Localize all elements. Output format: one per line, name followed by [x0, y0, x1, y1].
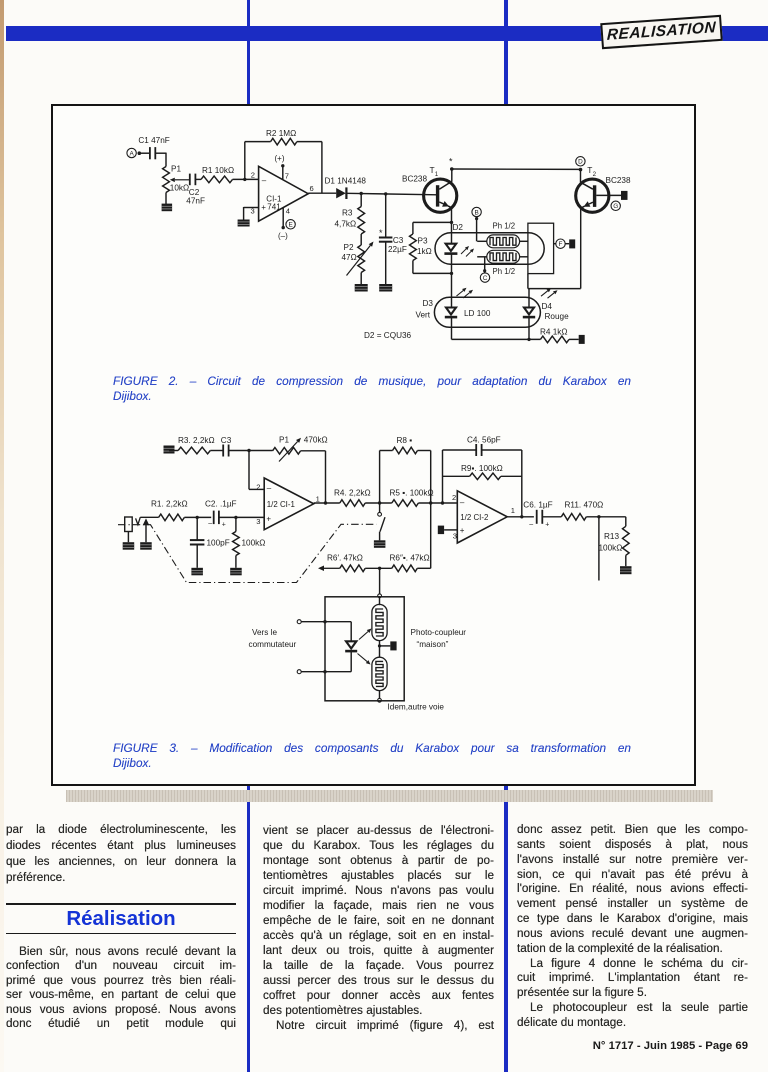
svg-text:D4: D4: [542, 302, 553, 311]
ground: [355, 284, 368, 292]
blue column rule right: [504, 0, 508, 1072]
svg-text:R11. 470Ω: R11. 470Ω: [565, 500, 604, 509]
wire: [233, 178, 259, 180]
svg-text:–: –: [262, 176, 267, 185]
wire D2 down: [451, 254, 453, 274]
svg-text:commutateur: commutateur: [249, 640, 297, 649]
ground pad: [164, 446, 175, 454]
wire into box: [379, 598, 381, 606]
schematic box shadow bottom: [66, 790, 713, 802]
diode D1 1N4148: [336, 188, 346, 198]
text column 2: [263, 823, 494, 1033]
photocoupler box: [325, 597, 404, 701]
wire right loop rectangle: [528, 223, 554, 273]
svg-text:4: 4: [286, 207, 290, 216]
svg-text:–: –: [267, 483, 272, 492]
wire: [210, 450, 223, 452]
LED D4 Rouge: [524, 308, 534, 315]
LED D2: [451, 233, 453, 244]
svg-text:Photo-coupleur: Photo-coupleur: [411, 628, 467, 637]
wire: [365, 502, 392, 504]
wire: [418, 502, 457, 504]
resistor R1 2,2k: [159, 514, 185, 521]
resistor R1: [201, 176, 233, 183]
wire D3 down / bottom rail: [451, 318, 453, 340]
op-amp 1/2 CI-1: [264, 478, 314, 530]
potentiometer P1: [163, 167, 170, 193]
svg-text:R3. 2,2kΩ: R3. 2,2kΩ: [178, 436, 215, 445]
svg-text:+: +: [261, 203, 266, 212]
wire: [301, 450, 326, 452]
resistor R13 100k: [625, 517, 627, 527]
wire output: [308, 192, 336, 194]
svg-text:1: 1: [316, 495, 320, 504]
ground: [162, 204, 173, 212]
svg-text:3: 3: [256, 517, 260, 526]
D3 light arrows: [457, 291, 464, 297]
capacitor C2 .1uF: [213, 511, 215, 524]
capacitor C4 56pF: [443, 449, 477, 451]
svg-text:P1: P1: [279, 436, 289, 445]
svg-text:*: *: [379, 228, 383, 238]
wire collector/emitter: [451, 169, 453, 182]
svg-text:R8 ▪: R8 ▪: [397, 436, 413, 445]
wire: [542, 516, 561, 518]
svg-text:3: 3: [453, 532, 457, 541]
svg-text:R2 1MΩ: R2 1MΩ: [266, 129, 296, 138]
resistor R11 470: [561, 514, 586, 521]
svg-text:22µF: 22µF: [388, 245, 407, 254]
svg-text:1/2 CI-2: 1/2 CI-2: [460, 513, 488, 522]
svg-text:D: D: [578, 159, 583, 166]
svg-text:–: –: [460, 498, 465, 507]
svg-text:D3: D3: [423, 299, 434, 308]
svg-text:C4. 56pF: C4. 56pF: [467, 435, 501, 444]
pin 4, node E, (-): [282, 208, 284, 227]
svg-text:P3: P3: [418, 237, 428, 246]
ground: [379, 284, 392, 292]
photoresistor Ph 1/2 (bottom): [487, 250, 520, 263]
transistor T1 BC238: [424, 179, 457, 212]
svg-text:R13: R13: [604, 532, 619, 541]
svg-text:741: 741: [267, 202, 281, 211]
footer: [517, 1040, 748, 1052]
svg-text:100kΩ: 100kΩ: [242, 539, 266, 548]
wire middle junction to pad: [379, 641, 381, 657]
svg-text:–: –: [529, 521, 533, 528]
svg-text:R5 ▪. 100kΩ: R5 ▪. 100kΩ: [390, 488, 434, 497]
svg-text:*: *: [449, 157, 453, 167]
wire: [360, 273, 362, 285]
capacitor C2: [189, 174, 191, 186]
node G: [611, 201, 620, 210]
LED of photocoupler: [350, 622, 352, 642]
input jack: [125, 517, 133, 532]
LED D3 Vert: [446, 308, 456, 315]
wire: [155, 152, 166, 154]
svg-text:C6. 1µF: C6. 1µF: [523, 500, 552, 509]
FIGURE 2 caption: [113, 374, 631, 404]
D2 light arrows: [461, 249, 466, 254]
svg-text:BC238: BC238: [402, 175, 427, 184]
svg-text:(–): (–): [278, 232, 288, 241]
svg-text:47Ω: 47Ω: [342, 253, 357, 262]
text column 3: [517, 823, 748, 1031]
svg-text:Rouge: Rouge: [545, 312, 570, 321]
svg-text:R3: R3: [342, 209, 353, 218]
svg-text:B: B: [474, 209, 478, 216]
svg-text:470kΩ: 470kΩ: [304, 436, 328, 445]
pin 7 (+): [282, 167, 284, 181]
svg-text:Ph 1/2: Ph 1/2: [493, 221, 516, 230]
svg-text:R4 1kΩ: R4 1kΩ: [540, 327, 568, 336]
wire link: [528, 288, 581, 290]
photoresistor (bottom): [372, 657, 387, 690]
svg-text:E: E: [288, 222, 292, 229]
wire: [365, 567, 392, 569]
capacitor C1: [149, 147, 151, 159]
svg-text:C1 47nF: C1 47nF: [138, 136, 169, 145]
svg-text:R6″▪. 47kΩ: R6″▪. 47kΩ: [390, 553, 430, 562]
wire: [169, 450, 178, 452]
svg-text:2: 2: [251, 171, 255, 180]
wire to pin 2: [248, 451, 250, 490]
wire: [385, 242, 387, 285]
op-amp 1/2 CI-2: [457, 491, 507, 543]
svg-text:P2: P2: [344, 243, 354, 252]
svg-text:C3: C3: [393, 236, 404, 245]
text column 1 paragraph 2: [6, 945, 236, 1033]
svg-text:P1: P1: [171, 165, 181, 174]
switch: [379, 503, 381, 512]
transistor T2 BC238: [580, 169, 582, 182]
resistor R4 1k: [540, 336, 569, 343]
wire: [297, 141, 322, 143]
svg-text:LD 100: LD 100: [464, 309, 491, 318]
resistor R3: [360, 194, 362, 207]
svg-text:(+): (+): [275, 154, 285, 163]
svg-text:R1 10kΩ: R1 10kΩ: [202, 166, 234, 175]
svg-text:R4. 2,2kΩ: R4. 2,2kΩ: [334, 488, 371, 497]
svg-text:2: 2: [452, 493, 456, 502]
svg-text:1: 1: [435, 171, 439, 178]
wire emitter down: [580, 208, 582, 289]
shield dash-dot line: [118, 524, 377, 582]
svg-text:100pF: 100pF: [207, 539, 230, 548]
wire: [301, 621, 351, 623]
wire: [229, 450, 273, 452]
wire top rail: [452, 168, 581, 170]
wire down to photocoupler: [379, 568, 381, 594]
wire: [346, 193, 437, 195]
wire: [141, 152, 149, 154]
svg-text:Idem,autre voie: Idem,autre voie: [388, 703, 445, 712]
svg-text:G: G: [613, 203, 618, 210]
svg-text:C: C: [483, 275, 488, 282]
wire: [586, 516, 626, 518]
wire: [219, 516, 264, 518]
svg-text:BC238: BC238: [606, 176, 631, 185]
blue top bar: [6, 26, 768, 42]
svg-text:1kΩ: 1kΩ: [417, 247, 432, 256]
resistor R2: [271, 138, 297, 145]
potentiometer P3 1k: [412, 222, 414, 234]
svg-text:Ph 1/2: Ph 1/2: [493, 267, 516, 276]
resistor R5 100k: [392, 500, 419, 507]
svg-text:C3: C3: [221, 436, 232, 445]
blue column rule left: [247, 0, 250, 1072]
svg-text:2: 2: [256, 483, 260, 492]
schematic box shadow right: [697, 120, 712, 801]
svg-text:4,7kΩ: 4,7kΩ: [335, 220, 357, 229]
resistor R8: [379, 451, 381, 504]
REALISATION banner: [603, 18, 721, 48]
svg-text:Vert: Vert: [416, 311, 431, 320]
capacitor C3 22uF: [385, 194, 387, 237]
svg-text:1/2 CI-1: 1/2 CI-1: [267, 500, 295, 509]
ground: [238, 220, 250, 227]
svg-text:+: +: [545, 521, 549, 528]
jack contact arrow: [143, 518, 150, 525]
svg-text:F: F: [559, 241, 563, 248]
photoresistor (top): [372, 604, 387, 640]
resistor R3 2,2k: [178, 447, 210, 454]
svg-text:D2 = CQU36: D2 = CQU36: [364, 331, 412, 340]
photoresistor Ph 1/2 (top): [487, 235, 520, 248]
node B: [472, 207, 481, 216]
svg-text:R9▪. 100kΩ: R9▪. 100kΩ: [461, 464, 503, 473]
svg-text:1: 1: [511, 506, 515, 515]
svg-text:6: 6: [310, 184, 314, 193]
optocoupler stadium (D2 + Ph elements): [435, 233, 544, 264]
pin 3 pad: [438, 526, 444, 535]
Réalisation heading: [6, 903, 236, 905]
svg-text:A: A: [129, 150, 134, 157]
resistor R9 100k: [443, 475, 470, 477]
potentiometer P1 470k: [273, 448, 301, 455]
D4 light arrows: [541, 291, 548, 296]
svg-text:–: –: [208, 521, 212, 528]
capacitor C6 1uF: [536, 510, 538, 524]
P1 wiper arrow: [175, 179, 190, 181]
capacitor 100pF: [196, 517, 198, 540]
optocoupler LD100 stadium (D3/D4): [434, 297, 540, 327]
wire: [196, 178, 201, 180]
main schematic box: [51, 104, 696, 786]
wire feedback right: [521, 450, 523, 517]
wire feedback left: [442, 450, 444, 503]
wire: [244, 142, 246, 180]
wire: [140, 516, 158, 518]
svg-text:7: 7: [285, 172, 289, 181]
jack tip contact: [136, 517, 141, 524]
svg-text:R1. 2,2kΩ: R1. 2,2kΩ: [151, 500, 188, 509]
resistor 100k: [235, 517, 237, 531]
wire pin3: [244, 207, 259, 209]
LED light arrows: [359, 632, 368, 640]
terminal circles: [297, 620, 301, 624]
svg-text:D2: D2: [453, 223, 464, 232]
wire: [165, 193, 167, 205]
left page-edge tan strip: [0, 0, 4, 1072]
svg-text:47nF: 47nF: [186, 196, 205, 205]
svg-text:+: +: [460, 526, 465, 535]
svg-text:C2. .1µF: C2. .1µF: [205, 500, 237, 509]
resistor R4 2,2k: [340, 500, 365, 507]
svg-text:Vers le: Vers le: [252, 628, 277, 637]
svg-text:100kΩ: 100kΩ: [599, 543, 623, 552]
text column 1 paragraph 1: [6, 822, 236, 886]
svg-text:“maison”: “maison”: [417, 640, 449, 649]
node A: [127, 148, 136, 157]
svg-text:+: +: [222, 522, 226, 529]
wire output: [314, 502, 340, 504]
wire output: [507, 516, 534, 518]
FIGURE 3 caption: [113, 741, 631, 771]
capacitor C3: [222, 445, 224, 457]
resistor R6p 47k with arrow: [324, 567, 340, 569]
svg-text:2: 2: [593, 171, 597, 178]
node C: [480, 273, 489, 282]
svg-text:10kΩ: 10kΩ: [170, 184, 189, 193]
node F: [554, 243, 556, 245]
resistor R6pp 47k: [392, 565, 418, 572]
wire: [184, 516, 211, 518]
op-amp U1 CI-1 741: [259, 166, 309, 221]
svg-text:+: +: [266, 514, 271, 523]
wire base to pad: [596, 194, 621, 196]
potentiometer P2: [360, 234, 362, 245]
svg-text:D1 1N4148: D1 1N4148: [325, 177, 367, 186]
svg-text:R6′. 47kΩ: R6′. 47kΩ: [327, 553, 363, 562]
node D: [576, 157, 585, 166]
